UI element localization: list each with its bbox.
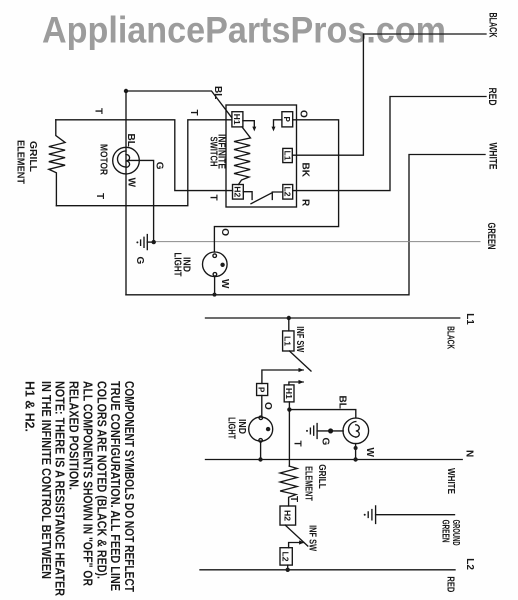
switch contact P-H1 <box>243 120 282 127</box>
svg-text:INF SW: INF SW <box>307 525 318 551</box>
svg-text:LIGHT: LIGHT <box>172 253 183 277</box>
wire arm to P <box>262 370 303 384</box>
arrow arm tip 2 <box>299 380 304 384</box>
svg-text:W: W <box>219 279 230 289</box>
resistor grill element R2 <box>280 466 297 506</box>
wire L2 to rail <box>287 565 289 570</box>
switch S1: infinite switch box <box>226 105 297 207</box>
wire red feed to L2 <box>293 97 486 191</box>
terminal H1 (ladder) <box>284 385 294 402</box>
junction dot L1-infsw <box>287 316 291 320</box>
svg-text:BL: BL <box>125 134 136 147</box>
wire node to grill <box>288 410 290 467</box>
svg-text:RELAXED POSITION.: RELAXED POSITION. <box>67 381 82 490</box>
svg-text:L2: L2 <box>281 552 290 563</box>
junction dot motor-N <box>353 457 357 461</box>
svg-text:T: T <box>188 110 199 116</box>
svg-text:RED: RED <box>486 88 498 106</box>
svg-text:L1: L1 <box>464 313 475 325</box>
svg-text:GRILL: GRILL <box>27 141 38 172</box>
svg-text:ELEMENT: ELEMENT <box>15 140 26 184</box>
wire motor G tap <box>128 160 154 242</box>
wire arm to L2 <box>289 543 304 548</box>
wire node to motor <box>289 410 355 418</box>
svg-text:MOTOR: MOTOR <box>98 144 109 176</box>
svg-text:NOTE: THERE IS A RESISTANCE HE: NOTE: THERE IS A RESISTANCE HEATER <box>53 381 68 597</box>
terminal L2 <box>282 185 292 200</box>
svg-text:WHITE: WHITE <box>487 143 499 170</box>
svg-text:T: T <box>93 108 104 114</box>
arrow arm tip 3 <box>299 540 304 544</box>
wire bottom rail through motor <box>125 91 127 295</box>
motor M1 <box>113 147 140 174</box>
wire L1 to switch <box>288 318 290 331</box>
svg-text:SWITCH: SWITCH <box>208 137 219 167</box>
wire motor ground tap <box>317 430 343 432</box>
connector circle <box>329 429 333 433</box>
svg-text:G: G <box>134 257 145 265</box>
ground G2 (chassis) <box>364 506 455 524</box>
wire H1 drop to grill right <box>56 120 232 206</box>
svg-text:W: W <box>126 178 137 188</box>
wire H2 drop to grill left <box>56 120 233 191</box>
wire H1 to node <box>288 402 290 410</box>
junction dot light-white <box>213 293 217 297</box>
svg-text:H1 & H2.: H1 & H2. <box>23 381 38 432</box>
svg-text:GRILL: GRILL <box>316 464 327 488</box>
switch INF SW blade (lower) <box>285 525 308 546</box>
resistor grill element R1 <box>49 120 65 206</box>
svg-text:N: N <box>464 450 475 457</box>
terminal P <box>282 112 293 127</box>
junction dot BL corner <box>124 89 128 93</box>
svg-text:LIGHT: LIGHT <box>226 417 237 439</box>
wire N rail <box>206 459 463 461</box>
wire green (gray) <box>154 241 480 243</box>
resistor internal heater <box>234 127 251 185</box>
svg-text:GREEN: GREEN <box>485 223 497 250</box>
note text block <box>23 381 137 597</box>
junction dot ground node <box>152 240 156 244</box>
svg-text:BLACK: BLACK <box>487 13 499 38</box>
wire arm to H1 <box>289 382 303 385</box>
svg-text:T: T <box>292 441 303 447</box>
svg-text:L1: L1 <box>283 336 292 347</box>
svg-text:ALL COMPONENTS SHOWN IN "OFF": ALL COMPONENTS SHOWN IN "OFF" OR <box>80 381 95 586</box>
terminal L2 (ladder) <box>280 548 292 565</box>
svg-text:IND: IND <box>236 419 247 434</box>
terminal H2 <box>232 185 243 200</box>
svg-text:WHITE: WHITE <box>445 468 456 494</box>
terminal H2 (ladder) <box>280 506 296 525</box>
wire black feed to L1 <box>293 34 486 155</box>
lamp IND LIGHT DS1 <box>202 252 227 277</box>
wire O from P to light <box>214 120 338 252</box>
svg-text:G: G <box>154 162 165 170</box>
svg-text:L2: L2 <box>282 187 291 198</box>
lamp IND LIGHT DS2 <box>249 416 273 442</box>
svg-text:T: T <box>288 496 299 502</box>
svg-text:O: O <box>262 402 273 410</box>
wire light to white rail <box>214 277 216 295</box>
ground G1 <box>136 235 153 250</box>
svg-text:GREEN: GREEN <box>440 520 451 543</box>
svg-text:COLORS ARE NOTED (BLACK & RED): COLORS ARE NOTED (BLACK & RED). <box>94 381 109 579</box>
junction dot motor small <box>354 446 358 450</box>
terminal L1 (inf sw) <box>283 331 294 351</box>
svg-text:T: T <box>94 193 105 199</box>
junction dot H1 node <box>287 407 291 411</box>
switch contact L2-H2 blade <box>243 192 283 204</box>
svg-text:COMPONENT SYMBOLS DO NOT REFLE: COMPONENT SYMBOLS DO NOT REFLECT <box>122 381 137 592</box>
svg-text:IN THE INFINITE CONTROL BETWEE: IN THE INFINITE CONTROL BETWEEN <box>39 381 54 579</box>
svg-text:BL: BL <box>337 396 348 409</box>
svg-text:TRUE CONFIGURATION. ALL FEED: TRUE CONFIGURATION. ALL FEED LINE <box>108 381 123 591</box>
svg-text:AppliancePartsPros.com: AppliancePartsPros.com <box>42 10 446 51</box>
svg-text:P: P <box>257 387 266 393</box>
wire motor to N <box>355 444 357 460</box>
wire L2 rail <box>200 569 455 571</box>
wire BL to H1 <box>126 91 232 117</box>
svg-text:R: R <box>300 199 311 207</box>
svg-text:INF SW: INF SW <box>294 326 305 352</box>
arrow arm tip <box>299 368 304 372</box>
svg-text:RED: RED <box>445 576 456 592</box>
junction dot light-N <box>258 457 262 461</box>
svg-text:H1: H1 <box>232 114 241 126</box>
svg-text:L1: L1 <box>282 151 291 162</box>
svg-text:O: O <box>298 110 309 118</box>
svg-text:H1: H1 <box>284 388 293 400</box>
junction dot L2 rail <box>286 568 290 572</box>
wire L1 rail <box>206 317 460 319</box>
svg-text:O: O <box>219 228 230 236</box>
svg-text:L2: L2 <box>464 558 475 570</box>
svg-text:P: P <box>282 117 291 123</box>
terminal L1 <box>282 148 292 162</box>
wire white feed <box>126 155 485 295</box>
motor M2 (BL) <box>343 418 369 444</box>
svg-text:BL: BL <box>212 86 223 99</box>
ground G3 (motor) <box>306 424 317 439</box>
svg-text:BK: BK <box>300 163 311 178</box>
switch INF SW blade (upper) <box>289 351 311 371</box>
terminal P (ladder) <box>257 384 268 396</box>
svg-text:GROUND: GROUND <box>450 520 461 546</box>
svg-text:ELEMENT: ELEMENT <box>303 466 314 501</box>
svg-text:BLACK: BLACK <box>445 326 456 350</box>
terminal H1 <box>232 112 243 127</box>
svg-text:G: G <box>320 438 331 446</box>
wire P to light <box>261 396 263 417</box>
svg-text:H2: H2 <box>232 186 241 198</box>
svg-text:H2: H2 <box>283 510 292 522</box>
svg-text:T: T <box>208 195 219 201</box>
svg-text:W: W <box>364 448 375 458</box>
wire light to N <box>260 442 262 459</box>
